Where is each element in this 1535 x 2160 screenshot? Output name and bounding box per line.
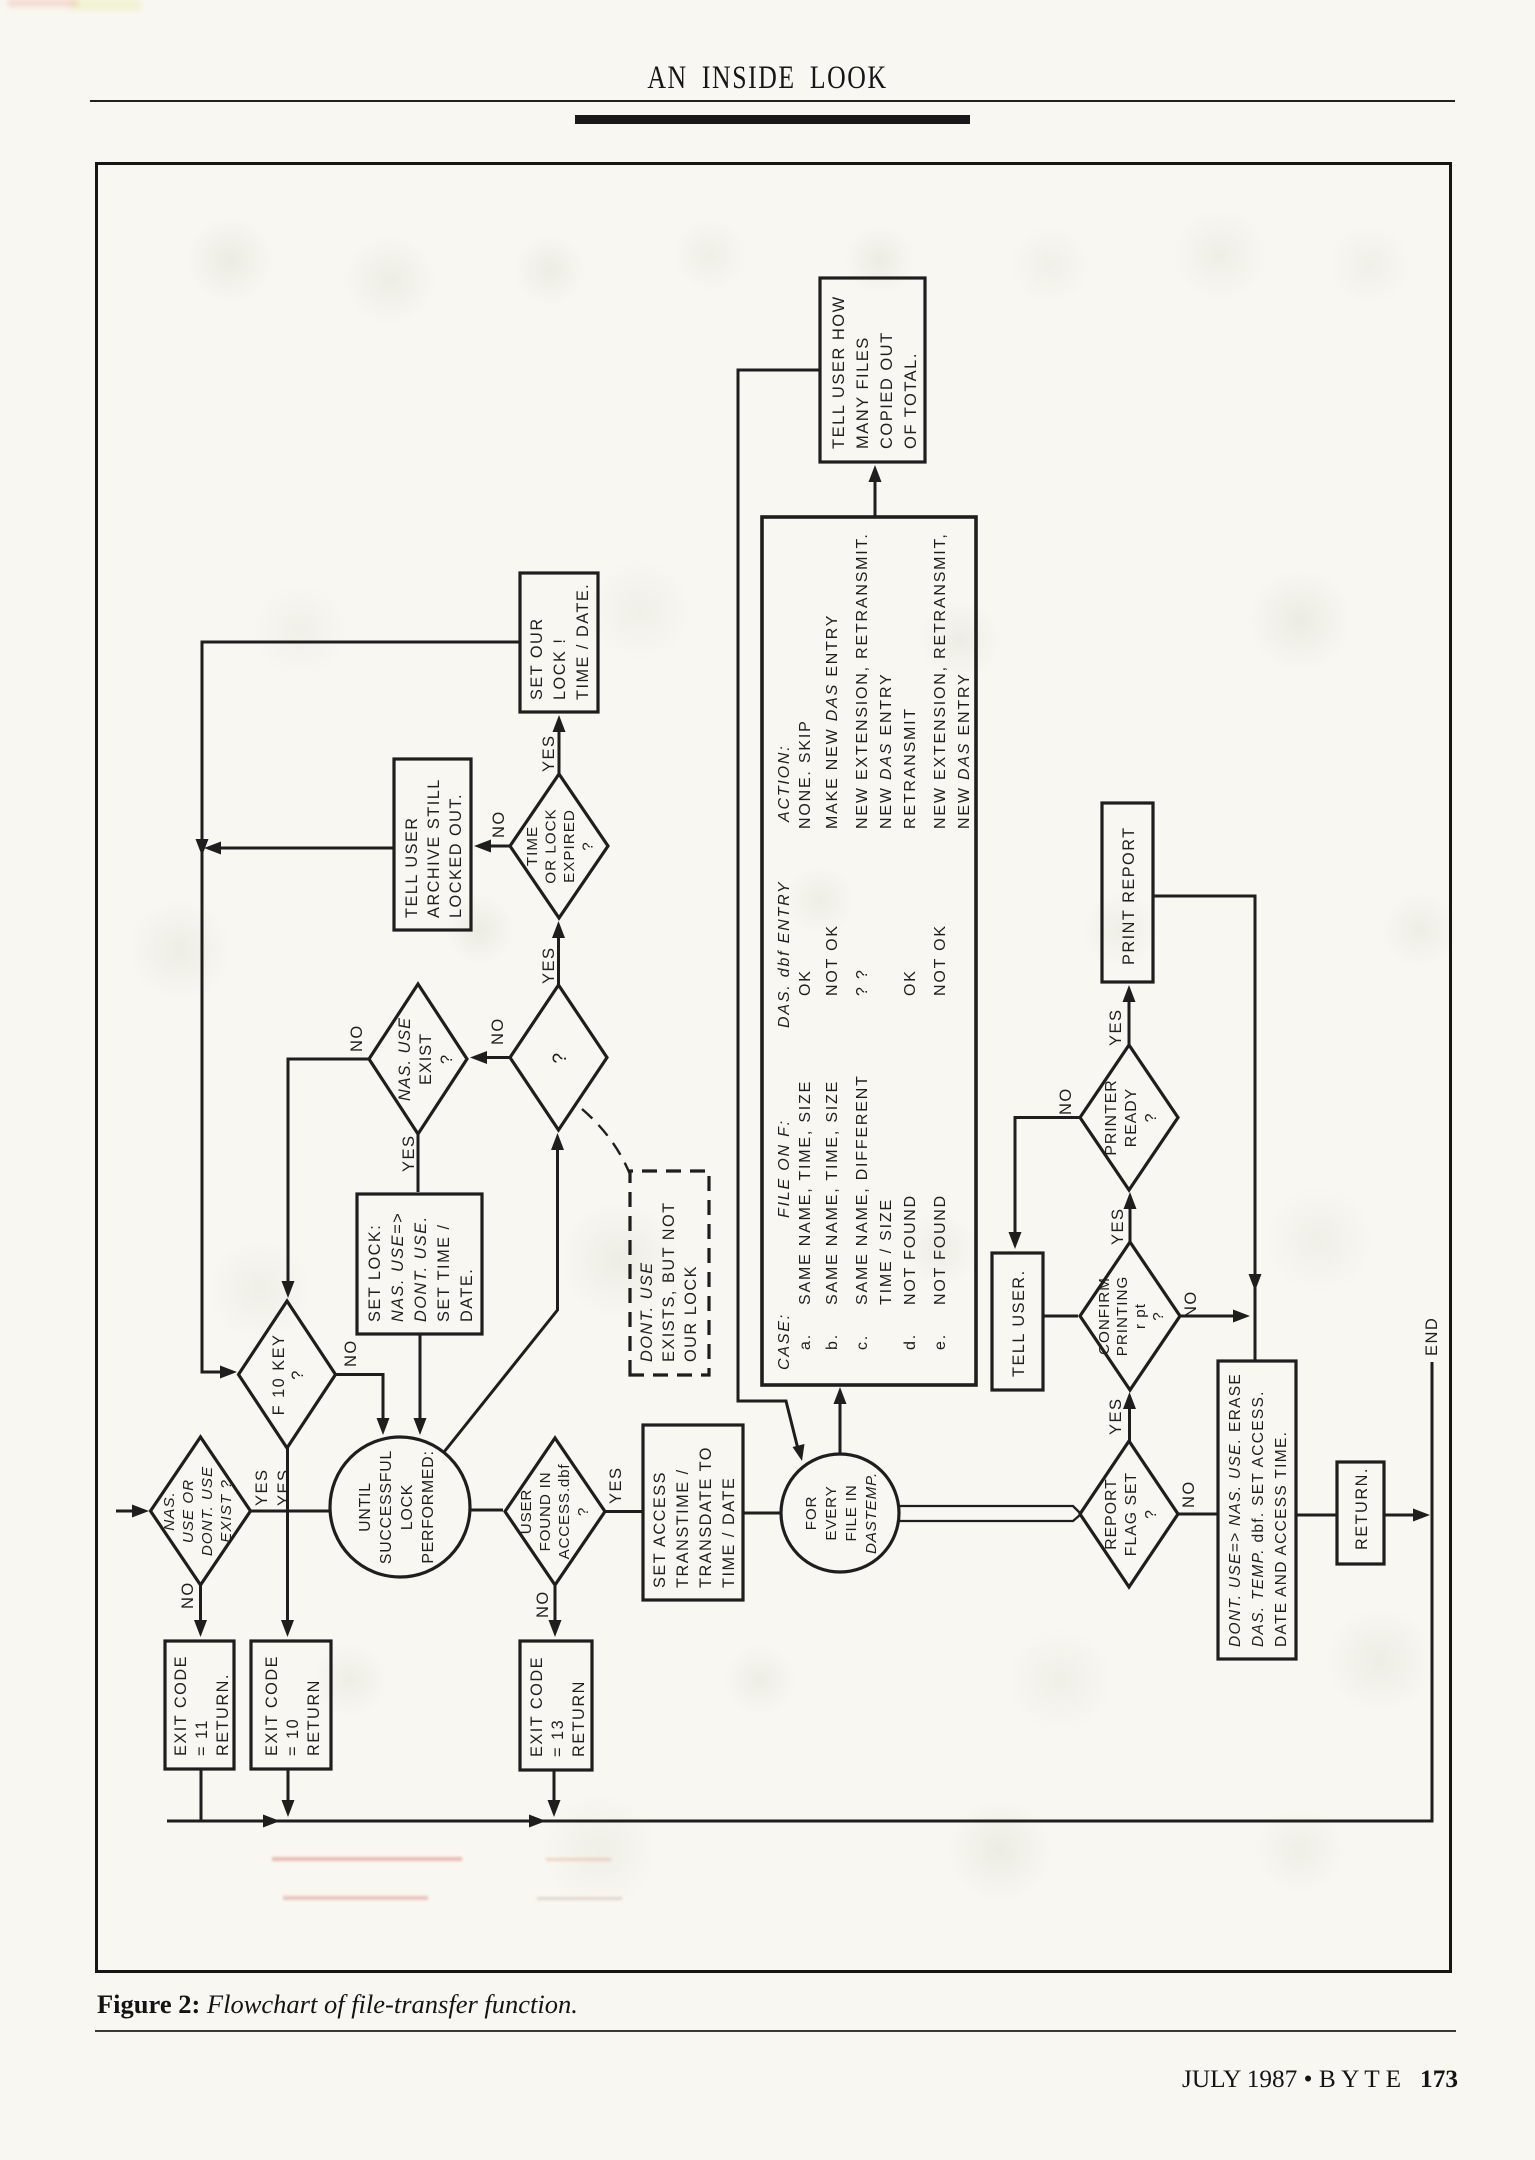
svg-text:DONT. USE: DONT. USE (638, 1261, 656, 1362)
process box: SET OUR LOCK ! TIME/DATE. (520, 573, 598, 712)
svg-text:LOCK: LOCK (399, 1484, 416, 1530)
wire D4 YES -> D6 TIME OR LOCK EXPIRED (557, 932, 560, 985)
faint bleed-through blobs (186, 216, 274, 304)
svg-text:e.: e. (932, 1333, 949, 1350)
svg-text:?: ? (1143, 1113, 1160, 1123)
svg-text:YES: YES (1107, 1008, 1125, 1046)
svg-text:RETURN: RETURN (570, 1680, 588, 1757)
svg-text:ARCHIVE STILL: ARCHIVE STILL (425, 778, 443, 918)
thick black bar (575, 115, 970, 124)
direction arrowhead on main return wire (196, 839, 209, 856)
decision D9: PRINTER READY ? (1080, 1045, 1178, 1190)
wire D1 NO -> EXIT CODE 11 box (199, 1585, 202, 1622)
process box: DONT.USE => NAS.USE ERASE DAS.TEMP.dbf SET ACCESS DATE AND ACCESS TIME (1218, 1361, 1296, 1659)
svg-text:DONT. USE: DONT. USE (199, 1466, 216, 1556)
svg-text:EXPIRED: EXPIRED (561, 809, 578, 883)
wire SET LOCK box -> loop circle C1 (419, 1334, 422, 1424)
wire D5 NO -> F10 KEY decision right vertex (288, 1059, 369, 1284)
wire EXIT CODE 10 -> bus (287, 1769, 290, 1806)
process box: SET ACCESS TRANSTIME/TRANSDATE TO TIME/DATE (643, 1425, 743, 1600)
wire loop circle C1 -> decision D4 (444, 1146, 558, 1452)
figure frame border (95, 162, 1452, 1973)
svg-text:SET LOCK:: SET LOCK: (366, 1224, 384, 1322)
svg-text:?: ? (1143, 1509, 1160, 1519)
svg-text:YES: YES (1109, 1207, 1127, 1245)
svg-text:NO: NO (1180, 1480, 1198, 1508)
svg-text:LOCK !: LOCK ! (551, 638, 569, 700)
svg-text:NEW EXTENSION, RETRANSMIT.: NEW EXTENSION, RETRANSMIT. (854, 532, 871, 829)
main return wire: SET OUR LOCK -> F10 KEY (202, 642, 520, 1372)
wire F10 KEY YES -> EXIT CODE 10 box (286, 1448, 289, 1622)
svg-text:NO: NO (179, 1581, 197, 1609)
wire EXIT CODE 13 -> bus (553, 1770, 556, 1806)
svg-text:FILE IN: FILE IN (843, 1484, 860, 1541)
decision D3: USER FOUND IN ACCESS.dbf ? (505, 1438, 605, 1585)
svg-text:END: END (1423, 1317, 1441, 1356)
svg-text:NO: NO (342, 1339, 360, 1367)
svg-text:PERFORMED:: PERFORMED: (420, 1450, 437, 1563)
wire D8 NO -> print return junction (1180, 1315, 1236, 1318)
svg-text:EVERY: EVERY (823, 1485, 840, 1540)
svg-text:SET OUR: SET OUR (528, 617, 546, 700)
decision D6: TIME OR LOCK EXPIRED ? (510, 774, 608, 918)
decision D5: NAS.USE EXIST ? (369, 984, 467, 1134)
wire D6 NO -> TELL USER ARCHIVE box (486, 845, 510, 848)
svg-text:= 13: = 13 (549, 1719, 567, 1757)
decision D1: NAS.USE OR DONT.USE EXIST ? (151, 1437, 251, 1585)
svg-text:?: ? (550, 1051, 571, 1063)
wire loop circle C2 -> case table (839, 1398, 842, 1454)
svg-text:NO: NO (348, 1024, 366, 1052)
svg-text:NEW DAS ENTRY: NEW DAS ENTRY (956, 673, 973, 829)
svg-text:TELL USER.: TELL USER. (1010, 1269, 1028, 1377)
svg-text:PRINTER: PRINTER (1103, 1079, 1120, 1155)
wire RETURN. box -> END line (1384, 1514, 1416, 1517)
loop circle C2: FOR EVERY FILE IN DASTEMP. (781, 1454, 899, 1572)
thin rule under running head (90, 100, 1455, 102)
svg-text:?: ? (575, 1507, 592, 1516)
svg-text:b.: b. (824, 1333, 841, 1350)
svg-text:EXIST ?: EXIST ? (218, 1479, 235, 1543)
svg-text:RETURN.: RETURN. (214, 1673, 232, 1756)
svg-text:NAS. USE=>: NAS. USE=> (389, 1212, 407, 1322)
svg-text:READY: READY (1123, 1088, 1140, 1147)
wire TELL USER. box -> D8 CONFIRM PRINTING (1043, 1315, 1078, 1318)
rule under caption (95, 2030, 1456, 2032)
svg-text:EXIT CODE: EXIT CODE (172, 1655, 190, 1756)
scanner color artifacts top edge (8, 0, 78, 6)
svg-text:TELL USER HOW: TELL USER HOW (830, 295, 848, 449)
svg-text:DASTEMP.: DASTEMP. (863, 1472, 880, 1554)
wire TELL USER HOW MANY box loop back -> circle C2 (738, 370, 820, 1453)
process box: SET LOCK NAS.USE => DONT.USE SET TIME/DATE (357, 1194, 482, 1334)
bus arrowheads (263, 1815, 280, 1828)
svg-text:? ?: ? ? (854, 968, 871, 996)
wire loop circle C1 -> D3 (470, 1509, 503, 1512)
page footer (1182, 2065, 1458, 2094)
wire D8 YES -> PRINTER READY decision (1129, 1203, 1132, 1242)
svg-text:UNTIL: UNTIL (357, 1482, 374, 1532)
process box: EXIT CODE = 10 RETURN (251, 1641, 331, 1769)
svg-text:?: ? (438, 1054, 456, 1064)
svg-text:F 10 KEY: F 10 KEY (270, 1334, 288, 1416)
svg-text:CONFIRM: CONFIRM (1096, 1277, 1113, 1355)
process box: TELL USER HOW MANY FILES COPIED OUT OF TOTAL. (820, 278, 925, 462)
svg-text:MANY FILES: MANY FILES (854, 336, 872, 449)
process box: EXIT CODE = 11 RETURN. (165, 1641, 234, 1769)
wire D3 YES -> SET ACCESS box (605, 1510, 642, 1513)
svg-text:OK: OK (797, 969, 814, 996)
svg-text:a.: a. (797, 1333, 814, 1350)
case table box (762, 517, 976, 1385)
rotated flowchart (90, 155, 1455, 1895)
svg-text:COPIED OUT: COPIED OUT (878, 331, 896, 449)
svg-text:DAS. dbf ENTRY: DAS. dbf ENTRY (776, 881, 793, 1028)
svg-text:FILE ON F:: FILE ON F: (776, 1119, 793, 1218)
wire D9 YES -> PRINT REPORT box (1128, 996, 1131, 1045)
dashed annotation box: DONT.USE EXISTS, BUT NOT OUR LOCK (630, 1171, 709, 1375)
dashed annotation leader from D4 (582, 1109, 633, 1182)
svg-text:FOR: FOR (803, 1496, 820, 1530)
svg-text:MAKE NEW DAS ENTRY: MAKE NEW DAS ENTRY (824, 614, 841, 829)
svg-text:SAME NAME, TIME, SIZE: SAME NAME, TIME, SIZE (824, 1080, 841, 1305)
svg-text:NONE. SKIP: NONE. SKIP (797, 719, 814, 829)
svg-text:DONT. USE.: DONT. USE. (412, 1215, 430, 1322)
process box: TELL USER. (992, 1253, 1043, 1390)
svg-text:YES: YES (400, 1134, 418, 1172)
svg-text:YES: YES (1107, 1397, 1125, 1435)
wire D2 NO -> loop circle C1 (336, 1375, 384, 1425)
svg-text:DONT. USE=> NAS. USE. ERASE: DONT. USE=> NAS. USE. ERASE (1227, 1373, 1244, 1647)
svg-text:= 10: = 10 (284, 1718, 302, 1756)
process box: RETURN. (1337, 1462, 1384, 1564)
svg-text:TRANSDATE TO: TRANSDATE TO (697, 1446, 715, 1588)
svg-text:YES: YES (607, 1466, 625, 1504)
svg-text:SET ACCESS: SET ACCESS (651, 1471, 669, 1588)
svg-text:?: ? (289, 1369, 307, 1380)
svg-text:SET TIME /: SET TIME / (435, 1223, 453, 1322)
svg-text:SUCCESSFUL: SUCCESSFUL (378, 1450, 395, 1564)
svg-text:FOUND IN: FOUND IN (537, 1472, 554, 1552)
svg-text:YES: YES (253, 1468, 271, 1506)
wire case table -> TELL USER HOW MANY box (874, 476, 877, 517)
svg-text:TIME / SIZE: TIME / SIZE (878, 1198, 895, 1305)
svg-text:DATE AND ACCESS TIME.: DATE AND ACCESS TIME. (1273, 1431, 1290, 1647)
wire PRINT REPORT -> DONT.USE => NAS.USE box (return) (1153, 896, 1255, 1361)
direction arrowhead on print return wire (1249, 1274, 1262, 1291)
svg-text:NOT OK: NOT OK (824, 924, 841, 996)
wire TELL USER ARCHIVE box -> main return wire (211, 847, 394, 850)
process box: TELL USER ARCHIVE STILL LOCKED OUT. (394, 759, 471, 930)
svg-text:NEW EXTENSION, RETRANSMIT,: NEW EXTENSION, RETRANSMIT, (932, 532, 949, 829)
svg-text:YES: YES (540, 734, 558, 772)
svg-text:EXIT CODE: EXIT CODE (528, 1656, 546, 1757)
svg-text:FLAG SET: FLAG SET (1123, 1472, 1140, 1556)
svg-text:DATE.: DATE. (458, 1268, 476, 1322)
wire D6 YES -> SET OUR LOCK box (558, 726, 561, 774)
svg-text:NOT FOUND: NOT FOUND (932, 1194, 949, 1305)
figure caption (97, 1989, 578, 2020)
svg-text:NO: NO (1057, 1087, 1075, 1115)
wire D4 NO -> D5 bottom vertex (482, 1056, 510, 1059)
svg-text:NOT OK: NOT OK (932, 924, 949, 996)
svg-text:TELL USER: TELL USER (403, 816, 421, 918)
wire SET ACCESS box -> loop circle C2 (743, 1512, 780, 1515)
decision D2: F 10 KEY ? (239, 1301, 336, 1448)
svg-text:EXISTS, BUT NOT: EXISTS, BUT NOT (660, 1201, 678, 1362)
wire D1 YES -> loop circle C1 (251, 1510, 331, 1513)
svg-text:TIME / DATE.: TIME / DATE. (574, 583, 592, 700)
svg-text:PRINTING: PRINTING (1114, 1276, 1131, 1357)
svg-text:DAS. TEMP. dbf. SET ACCESS.: DAS. TEMP. dbf. SET ACCESS. (1250, 1390, 1267, 1647)
svg-text:RETURN: RETURN (305, 1679, 323, 1756)
svg-text:NAS. USE: NAS. USE (396, 1017, 414, 1101)
exit bus wire collecting EXIT CODE returns -> END (167, 1362, 1432, 1821)
decision D7: REPORT FLAG SET ? (1080, 1441, 1178, 1587)
svg-text:YES: YES (540, 946, 558, 984)
svg-text:CASE:: CASE: (776, 1313, 793, 1370)
process box: EXIT CODE = 13 RETURN (520, 1641, 592, 1770)
svg-text:r pt: r pt (1132, 1303, 1149, 1329)
svg-text:NO: NO (534, 1590, 552, 1618)
wire DONT.USE box -> RETURN. box (1296, 1514, 1336, 1517)
decision D4: ? (lock check) (510, 985, 607, 1130)
svg-text:NEW DAS ENTRY: NEW DAS ENTRY (878, 673, 895, 829)
svg-text:ACTION:: ACTION: (776, 745, 793, 824)
svg-text:REPORT: REPORT (1103, 1478, 1120, 1550)
wire EXIT CODE 11 -> bus (200, 1769, 203, 1821)
svg-text:= 11: = 11 (193, 1719, 211, 1756)
decision D8: CONFIRM PRINTING rpt ? (1080, 1242, 1180, 1390)
svg-text:LOCKED OUT.: LOCKED OUT. (447, 793, 465, 918)
wire D9 NO -> TELL USER. box (1015, 1118, 1080, 1239)
svg-text:TRANSTIME /: TRANSTIME / (674, 1468, 692, 1588)
flow entry arrow into start decision (116, 1510, 142, 1513)
svg-text:?: ? (580, 841, 597, 850)
svg-text:SAME NAME, TIME, SIZE: SAME NAME, TIME, SIZE (797, 1080, 814, 1305)
svg-text:SAME NAME, DIFFERENT: SAME NAME, DIFFERENT (854, 1074, 871, 1305)
process box: PRINT REPORT (1102, 803, 1153, 982)
svg-text:?: ? (1150, 1311, 1167, 1320)
wire D7 NO -> DONT.USE => NAS.USE box (1178, 1513, 1217, 1516)
svg-text:c.: c. (854, 1334, 871, 1350)
red smear artifacts above caption (272, 1857, 462, 1861)
svg-text:ACCESS.dbf: ACCESS.dbf (556, 1464, 573, 1560)
svg-text:NO: NO (490, 810, 508, 838)
svg-text:OK: OK (902, 969, 919, 996)
svg-text:EXIT CODE: EXIT CODE (263, 1655, 281, 1756)
svg-text:EXIST: EXIST (417, 1033, 435, 1085)
wire D7 YES -> CONFIRM PRINTING decision (1128, 1403, 1131, 1441)
loop circle C1: UNTIL SUCCESSFUL LOCK PERFORMED: (330, 1437, 470, 1577)
svg-text:NO: NO (489, 1017, 507, 1045)
running head: AN INSIDE LOOK (169, 60, 1366, 97)
svg-text:OUR LOCK: OUR LOCK (682, 1265, 700, 1362)
wire D3 NO -> EXIT CODE 13 box (554, 1585, 557, 1624)
svg-text:OR LOCK: OR LOCK (543, 808, 560, 883)
svg-text:NAS.: NAS. (161, 1491, 178, 1530)
svg-text:USE OR: USE OR (180, 1479, 197, 1543)
svg-text:d.: d. (902, 1333, 919, 1350)
svg-text:NOT FOUND: NOT FOUND (902, 1194, 919, 1305)
double pipe wire: circle C2 -> REPORT FLAG SET decision (898, 1515, 1080, 1521)
svg-text:NO: NO (1182, 1290, 1200, 1318)
svg-text:RETRANSMIT: RETRANSMIT (902, 707, 919, 829)
svg-text:OF TOTAL.: OF TOTAL. (902, 352, 920, 449)
svg-text:USER: USER (518, 1489, 535, 1534)
svg-text:TIME: TIME (524, 826, 541, 866)
svg-text:YES: YES (275, 1468, 293, 1506)
wire D5 YES -> SET LOCK box (417, 1134, 420, 1192)
svg-text:PRINT REPORT: PRINT REPORT (1120, 826, 1138, 965)
svg-text:RETURN.: RETURN. (1353, 1467, 1371, 1550)
svg-text:TIME / DATE: TIME / DATE (720, 1477, 738, 1588)
